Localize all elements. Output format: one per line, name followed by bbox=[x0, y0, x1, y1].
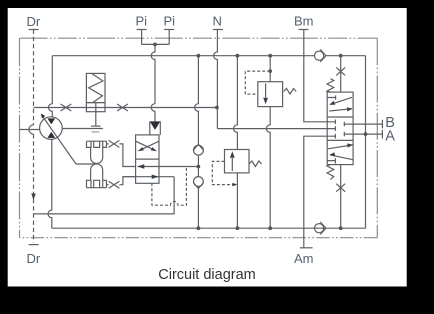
wire Pi1 down bbox=[141, 30, 143, 45]
main valve bottom spring bbox=[327, 165, 334, 180]
relief valve RV1 body bbox=[258, 82, 283, 107]
motor triangle bottom bbox=[47, 132, 55, 138]
port Dr top tick bbox=[29, 29, 39, 31]
compensator valve body bbox=[86, 103, 105, 112]
wire motor out right (to tank symbol) bbox=[62, 128, 103, 130]
main valve bottom drain with orifice bbox=[340, 165, 342, 229]
main valve top spring bbox=[327, 79, 334, 93]
bottom box blocked port bbox=[327, 158, 335, 163]
servo cylinder top cap bbox=[87, 140, 107, 142]
RV1 internal arrow (down) bbox=[265, 84, 267, 98]
check valve CV1 on top line (ball) bbox=[315, 51, 324, 60]
wire check column to tank line bbox=[197, 186, 199, 228]
middle box blocked ports right bbox=[344, 122, 353, 127]
pilot valve U1 body bbox=[136, 135, 159, 183]
pilot valve bottom box arrow left bbox=[138, 166, 199, 168]
wire Pi2 down bbox=[168, 30, 170, 45]
orifice X6 bbox=[336, 184, 345, 192]
envelope border (chain line) bbox=[20, 37, 378, 39]
wire between checks bbox=[197, 155, 199, 176]
pilot valve top box crossed arrows bbox=[136, 141, 159, 149]
port B tick bbox=[381, 120, 383, 129]
orifice X4 (servo bottom line) bbox=[109, 181, 120, 188]
wire port B line bbox=[353, 123, 382, 125]
wire Pi junction horizontal bbox=[142, 43, 170, 45]
wire compensator line y=107.5 bbox=[34, 107, 217, 109]
port Bm tick bbox=[299, 29, 309, 31]
RV2 pilot dashed with arrow bbox=[212, 161, 233, 184]
RV1 pilot dashed bbox=[245, 71, 270, 94]
compensator spring zigzag bbox=[89, 73, 103, 102]
port Pi1 tick bbox=[137, 29, 147, 31]
relief valve RV2 body bbox=[225, 150, 250, 173]
wire check column from top line bbox=[195, 56, 199, 145]
wire servo top chamber to pilot valve bbox=[107, 144, 136, 167]
servo cylinder bottom cap bbox=[87, 187, 107, 189]
svg-text:Pi: Pi bbox=[136, 14, 148, 29]
arrow on Dr line bbox=[31, 194, 35, 201]
orifice X2 bbox=[117, 104, 128, 111]
wire top pressure line bbox=[52, 55, 314, 57]
svg-text:Am: Am bbox=[294, 251, 314, 266]
main valve V2 body bbox=[327, 92, 353, 165]
svg-text:Dr: Dr bbox=[27, 14, 41, 29]
motor M1 circle bbox=[40, 117, 63, 140]
check valve CV2 (apex up) bbox=[193, 144, 203, 150]
check valve CV3 (apex down) bbox=[194, 177, 204, 187]
tank symbol bars bbox=[91, 125, 101, 127]
wire pump top riser with hop bbox=[49, 56, 53, 117]
wire Dr drain line (dashed) bbox=[33, 30, 35, 243]
port Pi2 tick bbox=[164, 29, 174, 31]
check valve CV4 on tank line (ball) bbox=[315, 224, 324, 233]
wire right vertical (to A line and tank) bbox=[365, 56, 367, 229]
wire servo bottom chamber to pilot valve bbox=[107, 177, 136, 185]
orifice X1 bbox=[61, 104, 72, 111]
port N tick bbox=[213, 29, 223, 31]
wire servo link horizontal bbox=[76, 163, 97, 165]
wire top line right segment bbox=[326, 55, 366, 57]
svg-text:Pi: Pi bbox=[164, 14, 176, 29]
motor variable arrow diagonal bbox=[42, 116, 76, 165]
RV1 drain with hop over N line bbox=[266, 107, 270, 229]
compensator spring box bbox=[86, 73, 105, 102]
wire motor bottom down to tank line bbox=[48, 139, 52, 228]
middle box blocked ports left bbox=[327, 120, 335, 125]
wire N line to main valve P port (hop over RV2 line) bbox=[217, 128, 327, 130]
RV1 spring bbox=[284, 89, 297, 95]
RV2 internal arrow (up) bbox=[231, 158, 233, 171]
svg-text:Bm: Bm bbox=[294, 14, 314, 29]
main valve pilot riser with orifice bbox=[340, 56, 342, 92]
compensator drain to tank symbol bbox=[95, 103, 97, 127]
svg-text:Dr: Dr bbox=[27, 251, 41, 266]
relief valve RV2 riser bbox=[234, 56, 238, 150]
svg-text:N: N bbox=[213, 14, 222, 29]
wire pilot line from Pi junction down with hops bbox=[151, 44, 155, 121]
RV2 drain bbox=[236, 173, 238, 228]
wire port A line bbox=[353, 133, 382, 135]
top box diagonal arrows bbox=[330, 97, 352, 104]
orifice X3 (servo top line) bbox=[109, 140, 120, 147]
wire tank return line bbox=[52, 227, 366, 229]
servo cylinder walls upper bbox=[91, 147, 103, 163]
wire N line down with hop over top line bbox=[214, 30, 218, 129]
top box blocked port bbox=[327, 95, 335, 99]
port Am tick bbox=[300, 247, 313, 249]
feedback link (dashed) bbox=[152, 167, 187, 206]
svg-text:A: A bbox=[385, 128, 395, 144]
pilot arrow (solenoid triangle) bbox=[150, 121, 161, 129]
wire Am line up to valve bbox=[304, 136, 327, 248]
pilot arrow rails bbox=[150, 121, 161, 134]
port Dr bottom tick bbox=[29, 244, 39, 246]
port A tick bbox=[381, 130, 383, 139]
pilot valve bottom box arrow right bbox=[123, 176, 174, 178]
svg-text:Circuit diagram: Circuit diagram bbox=[158, 267, 256, 283]
bottom box diagonal arrows bbox=[328, 145, 353, 149]
orifice X5 bbox=[336, 67, 345, 75]
RV2 spring bbox=[249, 161, 262, 167]
relief valve RV1 riser bbox=[269, 56, 271, 82]
motor triangle top bbox=[47, 118, 55, 124]
wire Bm line down to valve bbox=[304, 30, 327, 122]
wire drain loop down-left to Dr bbox=[34, 177, 175, 214]
pump suction line with hop over Dr bbox=[20, 129, 40, 131]
